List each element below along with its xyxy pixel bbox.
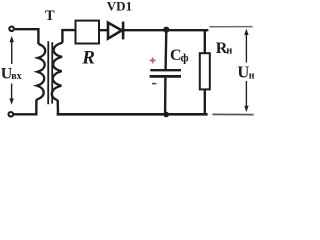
svg-text:T: T: [45, 8, 55, 24]
svg-text:VD1: VD1: [107, 0, 132, 13]
svg-text:R: R: [81, 48, 95, 69]
svg-text:н: н: [226, 46, 232, 57]
svg-text:н: н: [249, 70, 255, 81]
svg-text:ф: ф: [181, 53, 189, 65]
svg-text:вх: вх: [11, 71, 21, 82]
svg-text:U: U: [237, 63, 249, 82]
